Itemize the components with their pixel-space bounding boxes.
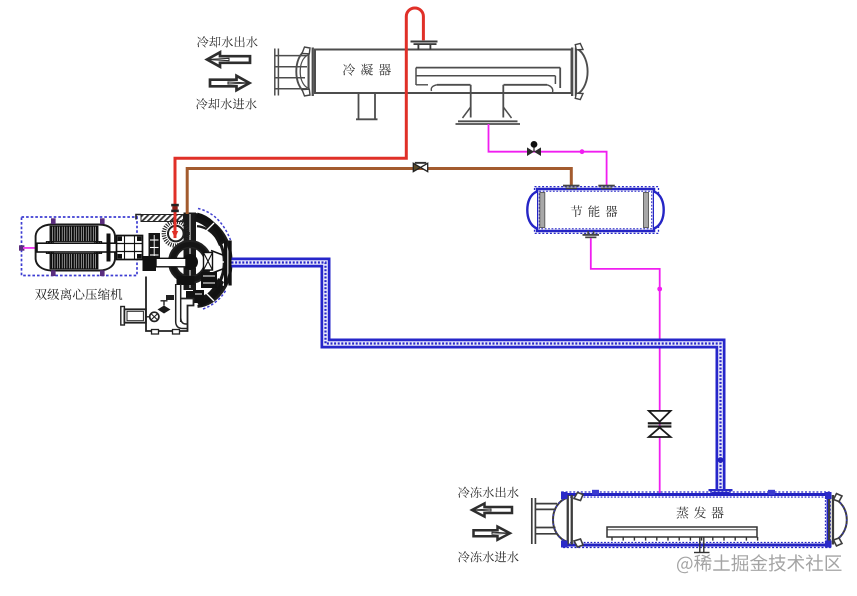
condenser left water nozzles — [275, 49, 307, 96]
red pipe condenser loop to compressor — [172, 8, 424, 239]
evaporator left water nozzles — [532, 498, 557, 544]
condenser shell body — [315, 50, 572, 94]
economizer shell — [537, 189, 654, 231]
condenser center support stem — [456, 85, 521, 124]
gearbox block — [149, 233, 161, 266]
diffuser cone lines — [211, 251, 224, 274]
volute upper arm — [197, 215, 223, 241]
evaporator label 蒸发器 — [677, 507, 724, 519]
coupling hub flange bar — [107, 234, 111, 262]
condenser internal flash chamber top — [416, 68, 560, 88]
magenta junction dot 1 — [580, 149, 585, 154]
suction eye circle — [168, 226, 184, 242]
evaporator bottom drain stub — [694, 537, 710, 553]
label 冷冻水进水 — [458, 551, 519, 562]
volute lower feet blobs — [177, 272, 218, 303]
coupling housing — [117, 236, 143, 260]
motor shaft — [37, 243, 121, 252]
motor stator bottom winding — [50, 254, 98, 269]
casing center riser column — [184, 213, 197, 291]
oil pump circle with cross — [150, 312, 159, 321]
lower casing feet notches — [152, 330, 180, 335]
volute second arc — [197, 226, 224, 298]
condenser right cap feet — [575, 44, 583, 100]
condenser left dome head — [296, 49, 307, 94]
condenser left cap feet — [302, 47, 310, 96]
chilled water out arrow (left) — [472, 503, 512, 516]
economizer left tube sheet — [540, 193, 545, 228]
motor mounting bolts — [51, 218, 105, 276]
inlet guide vane box — [204, 253, 213, 271]
volute white slits — [206, 223, 228, 301]
compressor outlet flange — [224, 241, 232, 286]
motor frame left end bell — [36, 225, 52, 271]
oil pump assembly — [121, 307, 150, 326]
condenser right tube-sheet flange — [571, 48, 577, 97]
volute upper wedge — [194, 213, 226, 246]
evaporator left dome dash texture — [553, 498, 568, 543]
volute lower arm — [200, 285, 222, 304]
impeller outer dark ring — [173, 245, 208, 280]
evaporator left dome — [553, 498, 568, 543]
volute lower wedge — [196, 278, 224, 306]
condenser left support leg — [356, 93, 378, 119]
economizer outer insulation dashes — [535, 187, 659, 234]
compressor label 双级离心压缩机 — [35, 288, 122, 300]
magenta pipe condenser to economizer — [489, 124, 607, 186]
small valve above oil pump — [158, 295, 175, 314]
economizer bottom port flange — [583, 231, 600, 238]
evaporator distributor nozzle ticks — [612, 537, 758, 541]
economizer left dome — [527, 192, 537, 229]
suction return downpipe — [176, 284, 188, 329]
watermark @稀土掘金技术社区 — [677, 554, 842, 573]
volute blob white slits — [195, 276, 215, 294]
compressor enclosure left inlet diamond — [19, 245, 24, 250]
suction scroll hatched ring — [164, 222, 188, 246]
second stage shaft — [143, 256, 187, 271]
condenser left tube-sheet flange — [307, 48, 314, 97]
cooling water out arrow (left) — [207, 52, 250, 66]
economizer top-left port flange — [563, 185, 580, 190]
brown liquid pipe — [187, 169, 571, 215]
volute outer arc — [198, 218, 232, 307]
magenta inlet stub — [23, 247, 49, 249]
evaporator internal distributor — [607, 527, 757, 537]
condenser label 冷凝器 — [343, 64, 391, 76]
valve on brown pipe — [413, 162, 427, 172]
label 冷却水进水 — [196, 98, 257, 109]
casing top step — [136, 215, 141, 220]
casing top hatched band — [141, 215, 184, 222]
red pipe flange ticks at compressor — [171, 204, 179, 212]
evaporator shell — [564, 495, 828, 546]
blue dashed contour over volute — [198, 209, 231, 310]
condenser top suction flange — [411, 41, 438, 50]
evaporator right dome — [833, 498, 847, 543]
impeller concentric circles — [169, 241, 211, 283]
blue suction pipe compressor to evaporator — [232, 263, 721, 492]
motor frame top and bottom lines — [50, 225, 100, 271]
evaporator right flange bar — [828, 495, 834, 545]
chilled water in arrow (right) — [474, 527, 511, 540]
motor frame right end bell — [99, 225, 115, 271]
evaporator outer insulation dashes — [562, 492, 830, 548]
evaporator corner blue blocks — [561, 492, 832, 548]
condenser right dome head — [578, 49, 588, 94]
magenta pipe economizer to evaporator — [591, 238, 660, 494]
evaporator left flange bar — [567, 495, 573, 545]
magenta junction dot 2 — [657, 287, 662, 292]
lower casing outline — [146, 277, 194, 332]
evaporator top vent stubs — [592, 490, 775, 495]
condenser internal chamber bottom lines — [416, 85, 553, 93]
solenoid valve on magenta pipe — [527, 141, 541, 156]
volute black crescent — [193, 222, 226, 303]
evaporator cap feet marks — [574, 493, 842, 548]
motor stator top winding — [50, 226, 98, 241]
motor rotor end rings — [46, 242, 101, 254]
blue pipe junction dot — [718, 457, 724, 463]
cooling water in arrow (right) — [210, 76, 250, 90]
condenser shell bottom line — [315, 92, 571, 94]
blue pipe flange at evaporator — [709, 489, 733, 494]
economizer label 节能器 — [571, 205, 618, 217]
economizer right dome — [654, 192, 664, 229]
label 冷却水出水 — [197, 36, 258, 47]
evaporator right dome dash texture — [833, 498, 847, 543]
expansion valve on magenta pipe — [648, 411, 672, 437]
economizer top-right port flange — [598, 185, 615, 190]
compressor enclosure dashed outline — [22, 217, 138, 276]
economizer right tube sheet — [644, 193, 649, 228]
label 冷冻水出水 — [458, 487, 519, 498]
